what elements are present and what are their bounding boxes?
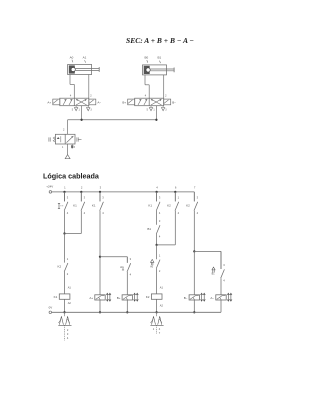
junction wire1/wire2 [63,232,65,234]
wire 1 down [64,211,66,234]
solenoid B+ [128,99,135,105]
contact A1 (limit switch) [126,257,128,263]
junction A+ / 0V rail [99,311,101,313]
coil K1 [59,294,70,299]
wire to coil K1 [64,272,66,294]
valve B supply drop [155,106,157,120]
manual actuator right [76,137,78,141]
contact B1 (branch) [220,251,222,269]
valve 3/2 manual [55,134,75,144]
contact K2 NC [64,260,66,263]
svg-text:K2: K2 [186,203,190,207]
junction coil K2 / 0V rail [155,311,157,313]
coil K2 [151,294,162,299]
svg-text:SEC: A + B + B − A −: SEC: A + B + B − A − [126,36,194,45]
contact K1 (wire 2) [80,192,82,202]
wire 6 [174,192,176,202]
svg-text:K2: K2 [146,295,150,299]
svg-text:B−: B− [172,101,176,105]
solenoid A- [216,295,226,300]
solenoid A+ [53,99,60,105]
relay K1 contact references [64,312,66,316]
cylinder A [68,65,92,75]
solenoid A− [89,99,96,105]
rail junction [80,191,82,193]
svg-text:Lógica cableada: Lógica cableada [43,171,100,180]
svg-text:A+: A+ [47,101,51,105]
valve A supply drop [81,106,83,120]
air supply line [68,119,157,121]
svg-text:+24V: +24V [46,185,53,189]
svg-text:A1: A1 [120,265,124,269]
wire 4 [156,192,158,202]
svg-text:B+: B+ [122,101,126,105]
solenoid B− [164,99,171,105]
svg-text:B1: B1 [147,227,151,231]
branch wire to B1 contact [194,250,221,252]
wire 2 to wire 1 link [65,233,82,235]
solenoid B+ [122,295,132,300]
exhaust ports [75,106,77,108]
solenoid B- [189,295,199,300]
exhaust ports [150,106,152,108]
svg-text:B1: B1 [158,56,162,60]
svg-text:A1: A1 [68,286,72,290]
bottom rail [52,311,221,313]
rail junction [99,191,101,193]
junction wire7 / B1 branch [193,250,195,252]
wire 2 [80,192,82,202]
svg-text:B−: B− [184,296,188,300]
tubing cylinder B to valve B [144,75,146,85]
branch wire to A1 contact [100,256,127,258]
svg-text:K1: K1 [148,203,152,207]
wire 3 [99,192,101,202]
contact B1 (wire 4) [156,221,158,225]
tubing cylinder A to valve A [69,75,71,85]
riser to 3/2 valve [67,120,69,135]
svg-text:K1: K1 [73,203,77,207]
rail junction [63,191,65,193]
contact K2 (wire 7) [193,192,195,202]
svg-text:A0: A0 [70,55,74,59]
svg-text:A1: A1 [83,55,87,59]
solenoid A+ [95,295,105,300]
terminal +24V [49,191,52,194]
rail junction [155,191,157,193]
svg-text:B0: B0 [145,56,149,60]
rail junction [174,191,176,193]
contact A0 (wire 4) [156,258,158,260]
air source [67,144,69,155]
limit switch arrow A1 [122,267,124,270]
pushbutton actuator S1 [58,203,60,208]
wire 1 [64,192,66,202]
svg-text:K2: K2 [58,265,62,269]
junction wire3 / A1 branch [99,256,101,258]
junction valve A supply [80,119,82,121]
junction coil K1 / 0V rail [63,311,65,313]
contact K2 (wire 6) [174,192,176,202]
wire 7 [193,192,195,202]
relay K2 contact references [156,312,158,316]
wire 6 to wire 4 link [157,244,176,246]
svg-text:B+: B+ [117,296,121,300]
svg-text:A2: A2 [68,301,72,305]
junction B- / 0V rail [193,311,195,313]
contact K1 (wire 4) [156,192,158,202]
junction wire4 / wire6 [155,244,157,246]
exhaust silencer [71,145,73,148]
junction valve B supply [155,119,157,121]
svg-text:A1: A1 [160,286,164,290]
terminal 0V [49,311,52,314]
svg-text:A−: A− [210,296,214,300]
spring left [53,137,55,143]
top rail [52,191,195,193]
contact S1 (start pushbutton) [64,192,66,202]
svg-text:A+: A+ [89,296,93,300]
svg-text:0V: 0V [49,305,53,309]
svg-text:A−: A− [97,101,101,105]
svg-text:K2: K2 [167,203,171,207]
valve 5/2 B+/B− [135,98,164,106]
svg-text:A2: A2 [160,304,164,308]
cylinder B [143,65,167,75]
valve 5/2 A+/A− [60,98,89,106]
svg-text:K1: K1 [54,295,58,299]
limit switch symbol A0 [151,259,154,262]
junction B+ / 0V rail [126,311,128,313]
contact K1 (wire 3) [99,192,101,202]
limit switch symbol B1 branch [212,267,215,270]
svg-text:K1: K1 [92,203,96,207]
